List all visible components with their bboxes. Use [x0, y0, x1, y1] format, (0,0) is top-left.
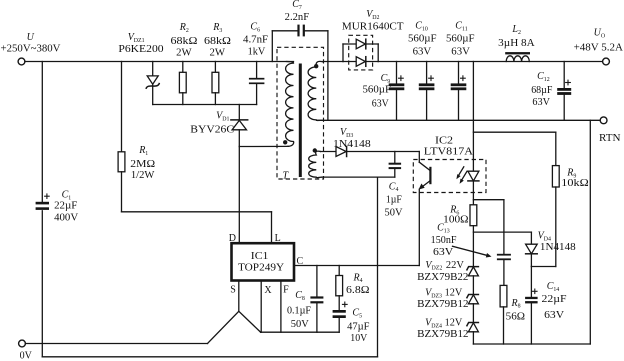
wire : C pin [294, 265, 419, 267]
svg-text:MUR1640CT: MUR1640CT [342, 21, 404, 32]
C13 labels [431, 222, 457, 258]
svg-text:2W: 2W [210, 47, 226, 58]
svg-text:50V: 50V [291, 319, 310, 330]
capacitor C8 [310, 266, 323, 333]
diode VD1 BYV26C [231, 105, 248, 147]
svg-text:47µF: 47µF [347, 322, 370, 333]
svg-text:F: F [283, 284, 289, 295]
svg-text:100Ω: 100Ω [443, 215, 468, 226]
svg-text:63V: 63V [544, 310, 565, 321]
R6 labels [443, 205, 468, 226]
R4 labels [346, 272, 370, 296]
svg-text:22µF: 22µF [542, 294, 568, 305]
wire : drain node to D pin [238, 147, 240, 244]
IC1 pin label F [283, 284, 289, 295]
wire : LED cathode node to C13 branch [473, 199, 504, 201]
svg-text:IC1: IC1 [251, 251, 269, 262]
wire : RTN rail [317, 119, 601, 121]
svg-text:50V: 50V [385, 208, 404, 219]
node 0V : label [20, 351, 33, 361]
svg-text:560µF: 560µF [363, 85, 392, 96]
C14 labels [542, 281, 568, 321]
capacitor C10 [419, 62, 435, 121]
wire : drain to primary bottom [239, 145, 288, 147]
wire : clamp bus bottom [153, 104, 257, 106]
svg-text:560µF: 560µF [408, 34, 437, 45]
IC2 phototransistor [419, 152, 431, 266]
R3 labels [204, 22, 231, 58]
C11 labels [446, 20, 475, 57]
capacitor C13 [497, 200, 511, 286]
svg-text:IC2: IC2 [435, 136, 453, 147]
svg-text:0V: 0V [20, 351, 33, 361]
svg-text:TOP249Y: TOP249Y [238, 263, 284, 274]
svg-text:P6KE200: P6KE200 [118, 44, 163, 55]
svg-text:150nF: 150nF [431, 235, 457, 246]
C8 labels [287, 290, 311, 330]
node Uo : output terminal [603, 58, 610, 65]
wire : S pin and source return slopes [208, 281, 261, 344]
IC2 LED [468, 171, 479, 205]
transformer primary winding [286, 62, 294, 147]
node U labels [1, 32, 62, 55]
IC1 pin label X [264, 285, 272, 296]
svg-text:22µF: 22µF [54, 200, 78, 211]
svg-text:10V: 10V [350, 333, 368, 344]
svg-text:63V: 63V [413, 46, 432, 57]
svg-text:L: L [275, 233, 281, 244]
IC1 pin label C [297, 256, 304, 267]
wire : R1 to L pin [122, 212, 272, 243]
capacitor C5 [333, 302, 348, 333]
svg-text:RTN: RTN [599, 133, 621, 144]
Uo labels [574, 27, 624, 53]
svg-text:1N4148: 1N4148 [333, 139, 371, 150]
capacitor C1 labels [54, 190, 79, 224]
VD1 labels [190, 111, 234, 136]
node 0V : terminal [19, 340, 26, 347]
svg-text:X: X [264, 285, 272, 296]
C13 leader arrow [453, 246, 492, 257]
svg-text:560µF: 560µF [446, 34, 475, 45]
svg-text:63V: 63V [372, 98, 390, 109]
transformer primary polarity dot [283, 140, 287, 144]
wire : bottom return rail [42, 356, 377, 358]
IC2 labels [424, 136, 474, 158]
zener VDZ3 BZX79B12 [467, 295, 479, 323]
svg-text:D: D [229, 233, 236, 244]
zener VDZ4 BZX79B12 [467, 323, 479, 345]
svg-text:1µF: 1µF [386, 195, 402, 206]
IC1 pin label S [230, 285, 236, 296]
L2 labels [498, 24, 535, 49]
C10 labels [408, 20, 437, 57]
wire : X pin [260, 281, 262, 333]
wire : output rail [378, 61, 602, 63]
capacitor C6 [249, 62, 265, 105]
svg-text:LTV817A: LTV817A [424, 147, 474, 158]
wire : VD4 branch [473, 231, 531, 233]
transformer T dashed box [277, 47, 324, 179]
diode VD4 1N4148 [526, 232, 538, 266]
svg-text:+250V~380V: +250V~380V [1, 44, 62, 55]
svg-text:1N4148: 1N4148 [540, 242, 576, 253]
node U : input terminal [18, 58, 25, 65]
svg-text:0.1µF: 0.1µF [287, 306, 311, 317]
transformer secondary polarity dot [314, 64, 318, 68]
node RTN : terminal [600, 117, 607, 124]
C6 labels [243, 21, 269, 57]
wire : bias winding bottom [322, 176, 395, 178]
svg-text:10kΩ: 10kΩ [561, 178, 588, 189]
svg-text:63V: 63V [451, 46, 470, 57]
transformer T label [283, 171, 290, 182]
svg-text:68kΩ: 68kΩ [171, 36, 198, 47]
resistor R1 [118, 62, 125, 212]
svg-text:400V: 400V [54, 213, 79, 224]
svg-text:4.7nF: 4.7nF [243, 34, 269, 45]
VD3 labels [333, 127, 371, 150]
IC1 text [238, 251, 284, 274]
capacitor C14 [525, 267, 538, 345]
wire : LED anode from output rail [472, 62, 474, 171]
VD2 labels [342, 9, 404, 32]
wire : 0V horizontal [25, 343, 207, 345]
wire : left rail down to 0V and bottom [41, 62, 43, 357]
resistor R3 [212, 62, 219, 105]
svg-text:BYV26C: BYV26C [190, 125, 234, 136]
C7 labels [285, 0, 310, 23]
RTN label [599, 133, 621, 144]
transformer core [299, 64, 302, 178]
svg-text:22V: 22V [446, 260, 465, 271]
resistor R6 [470, 205, 477, 267]
resistor R8 [500, 285, 507, 344]
capacitor C4 [389, 152, 402, 178]
svg-text:BZX79B12: BZX79B12 [417, 329, 468, 340]
wire : bottom right rail [473, 343, 590, 345]
svg-text:U: U [27, 32, 35, 43]
wire : F pin [280, 281, 282, 333]
inductor L2 [505, 52, 530, 61]
transformer bias winding [309, 151, 322, 178]
svg-text:2.2nF: 2.2nF [285, 12, 310, 23]
svg-text:1/2W: 1/2W [131, 170, 155, 181]
optocoupler IC2 dashed box [413, 160, 486, 193]
resistor R4 [336, 266, 343, 310]
R1 labels [130, 145, 155, 181]
R8 labels [506, 298, 525, 323]
svg-text:2W: 2W [176, 47, 192, 58]
capacitor C7 [272, 25, 328, 121]
wire : R9 bottom to VD4 cathode [531, 266, 555, 268]
svg-text:6.8Ω: 6.8Ω [346, 285, 370, 296]
VDZ3 labels [417, 288, 468, 311]
svg-text:12V: 12V [445, 318, 463, 329]
svg-text:12V: 12V [445, 288, 463, 299]
wire : source rail [261, 331, 340, 333]
capacitor C12 [557, 62, 571, 121]
VDZ4 labels [417, 318, 468, 341]
wire : R9 feed from output node [473, 131, 555, 133]
svg-text:+48V 5.2A: +48V 5.2A [574, 43, 624, 54]
C9 labels [363, 73, 392, 109]
transient suppressor VDZ1 P6KE200 [146, 62, 159, 105]
IC1 pin label D [229, 233, 236, 244]
wire : bias/C4 ground return [377, 177, 379, 357]
capacitor C9 [389, 62, 405, 121]
svg-text:S: S [230, 285, 236, 296]
capacitor C11 [451, 62, 467, 121]
svg-text:56Ω: 56Ω [506, 311, 525, 322]
op-amp IC1 TOP249Y box [232, 243, 295, 280]
svg-text:3µH 8A: 3µH 8A [498, 38, 535, 49]
svg-text:2MΩ: 2MΩ [130, 159, 155, 170]
svg-text:BZX79B22: BZX79B22 [417, 272, 468, 283]
VDZ2 labels [417, 260, 468, 283]
IC2 light arrows [456, 167, 467, 184]
svg-text:68kΩ: 68kΩ [204, 36, 231, 47]
VD4 labels [538, 231, 576, 254]
capacitor C1 [36, 193, 50, 210]
wire : secondary top to rectifier [323, 61, 343, 63]
resistor R9 [552, 132, 559, 266]
svg-text:68µF: 68µF [531, 85, 553, 96]
transformer secondary winding [308, 61, 323, 120]
transformer bias polarity dot [313, 148, 317, 152]
R9 labels [561, 168, 588, 190]
diode VD3 1N4148 [321, 147, 420, 157]
rectifier VD2 MUR1640CT [343, 35, 378, 70]
IC1 pin label L [275, 233, 281, 244]
svg-text:63V: 63V [433, 247, 454, 258]
VDZ1 labels [118, 32, 163, 55]
zener VDZ2 BZX79B22 [467, 267, 479, 295]
svg-text:63V: 63V [532, 97, 550, 108]
wire : top DC bus [25, 61, 294, 63]
C4 labels [385, 181, 404, 218]
svg-text:BZX79B12: BZX79B12 [417, 299, 468, 310]
resistor R2 [179, 62, 186, 105]
C5 labels [347, 308, 370, 345]
wire : right RTN rail down [589, 120, 591, 344]
svg-text:1kV: 1kV [248, 46, 266, 57]
R2 labels [171, 22, 198, 58]
C12 labels [531, 71, 553, 108]
